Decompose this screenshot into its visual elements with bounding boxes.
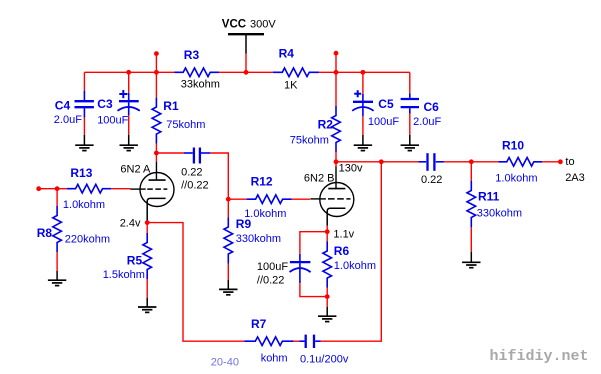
label 130v	[339, 163, 363, 175]
svg-text:1.1v: 1.1v	[333, 229, 354, 241]
resistor R3	[175, 68, 220, 77]
wire plate A to coupling cap	[156, 152, 184, 154]
label C3	[97, 97, 113, 111]
svg-text:100uF: 100uF	[257, 261, 288, 273]
capacitor feedback 0.1u/200v	[299, 335, 320, 348]
node B+ stub terminal right	[334, 51, 339, 56]
svg-text:to: to	[565, 156, 574, 168]
ground under C3	[120, 135, 138, 151]
wire feedback riser right	[321, 162, 382, 341]
tube U2 grid lead	[311, 198, 326, 200]
ground under C6	[401, 135, 419, 151]
svg-text:VCC: VCC	[222, 19, 246, 31]
svg-text:33kohm: 33kohm	[181, 79, 220, 91]
tube U2 plate lead	[335, 167, 337, 189]
value coupling //0.22	[181, 180, 209, 192]
tube U2 plate bar	[328, 188, 345, 190]
resistor R2	[332, 106, 341, 152]
value bypass //0.22	[257, 274, 285, 286]
svg-text:R10: R10	[502, 139, 524, 153]
capacitor C5 plus sign	[354, 90, 361, 97]
wire R2 to plate B	[335, 152, 337, 162]
label R9	[236, 217, 252, 231]
svg-text:0.1u/200v: 0.1u/200v	[300, 354, 349, 366]
value 0.1u/200v	[300, 354, 349, 366]
wire 2.4v to feedback riser	[147, 223, 244, 342]
resistor R7	[244, 337, 293, 346]
label 1.1v	[333, 229, 354, 241]
label C5	[378, 97, 394, 111]
svg-text:2.4v: 2.4v	[120, 218, 141, 230]
wire junction to R12	[228, 198, 246, 200]
wire output cap to R10	[444, 161, 499, 163]
node VCC junction	[244, 70, 249, 75]
value R2 75kohm	[290, 135, 329, 147]
label R10	[502, 139, 524, 153]
label R11	[478, 189, 500, 203]
node R6 ground junction	[325, 294, 330, 299]
svg-text:100uF: 100uF	[368, 116, 399, 128]
wire top rail right segment	[319, 71, 410, 73]
node plate A junction	[154, 151, 159, 156]
wire rail to R1	[155, 72, 157, 97]
svg-text:330kohm: 330kohm	[477, 207, 522, 219]
label 6N2 B	[304, 172, 335, 184]
svg-text:1.0kohm: 1.0kohm	[63, 199, 105, 211]
wire top rail middle segment	[219, 71, 273, 73]
label R12	[251, 175, 273, 189]
svg-text:0.22: 0.22	[421, 174, 442, 186]
label C6	[424, 100, 440, 114]
value R9 330kohm	[236, 233, 281, 245]
ground under R9	[219, 280, 237, 295]
svg-text:R11: R11	[478, 189, 500, 203]
wire 1.1v to bypass cap	[300, 232, 327, 254]
svg-text:2A3: 2A3	[565, 172, 585, 184]
label R1	[163, 99, 179, 113]
value R11 330kohm	[477, 207, 522, 219]
wire R11 to ground	[470, 227, 472, 252]
wire R11 junction down	[470, 162, 472, 181]
wire B+ stub right to rail	[335, 53, 337, 72]
tube U1 grid dashes	[147, 188, 167, 190]
wire rail to C3	[128, 72, 130, 93]
value 1K	[284, 79, 298, 91]
ground under C4	[75, 135, 93, 151]
resistor R11	[467, 181, 476, 227]
value C4 2.0uF	[54, 114, 82, 126]
label R5	[127, 254, 143, 268]
wire bypass cap to R6 bottom	[300, 283, 327, 296]
capacitor coupling 0.22//0.22	[184, 148, 210, 164]
tube U2 cathode	[327, 208, 345, 225]
node plate B junction 130v	[334, 159, 339, 164]
tube U1 envelope 6N2 A	[140, 173, 174, 207]
svg-text:R12: R12	[251, 175, 273, 189]
wire junction to R9	[227, 199, 229, 217]
svg-text:300V: 300V	[250, 19, 276, 31]
wire cathode B stub	[326, 226, 328, 232]
capacitor output 0.22	[419, 153, 444, 171]
node C5 rail junction	[361, 70, 366, 75]
value R10 1.0kohm	[495, 173, 537, 185]
label 2A3	[565, 172, 585, 184]
value C5 100uF	[368, 116, 399, 128]
label R8	[37, 226, 53, 240]
svg-text:330kohm: 330kohm	[236, 233, 281, 245]
resistor R5	[143, 233, 152, 279]
svg-text://0.22: //0.22	[257, 274, 285, 286]
svg-text:R5: R5	[127, 254, 143, 268]
wire input to R8 node	[39, 188, 67, 190]
value C6 2.0uF	[413, 116, 441, 128]
wire 130v to output cap	[336, 161, 419, 163]
wire VCC to rail	[245, 54, 247, 73]
wire C5 to ground	[362, 116, 364, 135]
svg-text:C3: C3	[97, 97, 113, 111]
resistor R4	[273, 68, 319, 77]
label C4	[55, 99, 71, 113]
node input terminal	[36, 186, 41, 191]
wire C6 to ground	[409, 114, 411, 135]
tube U2 envelope 6N2 B	[320, 183, 354, 217]
capacitor C6	[401, 93, 419, 114]
capacitor C4	[75, 91, 94, 118]
wire cathode A stub	[146, 221, 148, 222]
label 2.4v	[120, 218, 141, 230]
svg-text:100uF: 100uF	[97, 115, 128, 127]
wire R6 to ground node	[326, 288, 328, 297]
ground under R6	[318, 297, 336, 322]
svg-text:R6: R6	[334, 244, 350, 258]
wire rail corner to C6	[409, 72, 411, 93]
tube U1 plate bar	[149, 179, 166, 181]
resistor R8	[53, 206, 62, 252]
value R5 1.5kohm	[103, 269, 145, 281]
value R8 220kohm	[65, 234, 110, 246]
node feedback tap junction	[379, 159, 384, 164]
svg-text:R4: R4	[279, 47, 295, 61]
value coupling 0.22	[181, 166, 202, 178]
label R3	[184, 48, 200, 62]
capacitor C5	[352, 94, 373, 117]
svg-text:R1: R1	[163, 99, 179, 113]
value R12 1.0kohm	[244, 208, 286, 220]
wire rail corner to C4	[83, 72, 85, 90]
value C3 100uF	[97, 115, 128, 127]
resistor R6	[323, 242, 332, 288]
wire C4 to ground	[83, 118, 85, 135]
wire R8 node down	[56, 189, 58, 206]
node 2.4v junction	[145, 220, 150, 225]
label R6	[334, 244, 350, 258]
svg-text:R13: R13	[70, 166, 92, 180]
wire C3 to ground	[128, 115, 130, 135]
wire rail to R2	[335, 72, 337, 106]
wire R5 to ground	[146, 279, 148, 298]
label 6N2 A	[120, 163, 151, 175]
tube U1 cathode	[147, 198, 165, 221]
resistor R13	[67, 184, 112, 193]
svg-text:R2: R2	[318, 118, 334, 132]
svg-text:C6: C6	[424, 100, 440, 114]
wire R12 to grid B	[292, 198, 311, 200]
svg-text:C4: C4	[55, 99, 71, 113]
svg-text:1.0kohm: 1.0kohm	[495, 173, 537, 185]
wire 2.4v to R5	[146, 223, 148, 233]
label R7	[251, 317, 267, 331]
label 300V	[250, 19, 276, 31]
svg-text:6N2 B: 6N2 B	[304, 172, 335, 184]
value bypass 100uF	[257, 261, 288, 273]
tube U1 plate lead	[155, 162, 157, 180]
ground under R11	[462, 252, 480, 268]
wire B+ stub to rail	[155, 54, 157, 73]
svg-text:1K: 1K	[284, 79, 298, 91]
resistor R10	[498, 158, 542, 167]
svg-text:R7: R7	[251, 317, 267, 331]
capacitor C3 plus sign	[119, 90, 127, 98]
label R13	[70, 166, 92, 180]
value R7 kohm	[261, 352, 288, 364]
svg-text://0.22: //0.22	[181, 180, 209, 192]
ground under R8	[48, 271, 66, 286]
watermark hifidiy.net	[490, 348, 589, 365]
node rail R2 junction	[334, 70, 339, 75]
node C3 rail junction	[126, 70, 131, 75]
label VCC	[222, 19, 246, 31]
value R1 75kohm	[166, 119, 205, 131]
power VCC bar	[228, 33, 264, 35]
wire feedback cap to R7	[293, 340, 299, 342]
svg-text:R9: R9	[236, 217, 252, 231]
resistor R1	[152, 98, 161, 144]
label R2	[318, 118, 334, 132]
label to	[565, 156, 574, 168]
value R13 1.0kohm	[63, 199, 105, 211]
wire coupling cap to grid B node	[210, 153, 228, 199]
svg-text:20-40: 20-40	[211, 357, 239, 369]
svg-text:220kohm: 220kohm	[65, 234, 110, 246]
wire 1.1v to R6	[326, 232, 328, 242]
power VCC stem	[245, 34, 247, 53]
capacitor bypass 100uF//0.22	[290, 254, 311, 283]
svg-text:6N2 A: 6N2 A	[120, 163, 151, 175]
resistor R12	[247, 195, 292, 204]
svg-text:R3: R3	[184, 48, 200, 62]
svg-text:2.0uF: 2.0uF	[413, 116, 441, 128]
svg-text:hifidiy.net: hifidiy.net	[490, 348, 589, 365]
node output terminal	[558, 159, 563, 164]
wire rail to C5	[362, 72, 364, 94]
value output 0.22	[421, 174, 442, 186]
svg-text:R8: R8	[37, 226, 53, 240]
svg-text:1.0kohm: 1.0kohm	[334, 260, 376, 272]
wire plate B red stub	[335, 162, 337, 167]
wire R1 to plate node	[155, 144, 157, 154]
ground under C5	[354, 135, 372, 151]
label R4	[279, 47, 295, 61]
wire R13 to grid A	[111, 188, 130, 190]
node 1.1v junction	[325, 229, 330, 234]
value 33kohm	[181, 79, 220, 91]
wire R9 to ground	[227, 264, 229, 281]
svg-text:2.0uF: 2.0uF	[54, 114, 82, 126]
tube U1 grid lead	[130, 188, 146, 190]
value R6 1.0kohm	[334, 260, 376, 272]
wire plate A red stub	[155, 153, 157, 162]
wire top rail left segment	[84, 71, 174, 73]
svg-text:130v: 130v	[339, 163, 363, 175]
node R12 R9 junction	[226, 197, 231, 202]
svg-text:75kohm: 75kohm	[290, 135, 329, 147]
node R11 junction	[469, 159, 474, 164]
wire R8 to ground	[56, 252, 58, 271]
svg-text:kohm: kohm	[261, 352, 288, 364]
node R8 junction	[55, 186, 60, 191]
tube U2 grid dashes	[328, 198, 351, 200]
node rail R1 junction	[154, 70, 159, 75]
ground under R5	[138, 298, 156, 313]
svg-text:75kohm: 75kohm	[166, 119, 205, 131]
node B+ stub terminal left	[154, 51, 159, 56]
svg-text:1.5kohm: 1.5kohm	[103, 269, 145, 281]
svg-text:0.22: 0.22	[181, 166, 202, 178]
capacitor C3	[118, 93, 140, 115]
svg-text:C5: C5	[378, 97, 394, 111]
resistor R9	[224, 218, 233, 264]
value R7 20-40	[211, 357, 239, 369]
wire R10 to output terminal	[542, 161, 560, 163]
